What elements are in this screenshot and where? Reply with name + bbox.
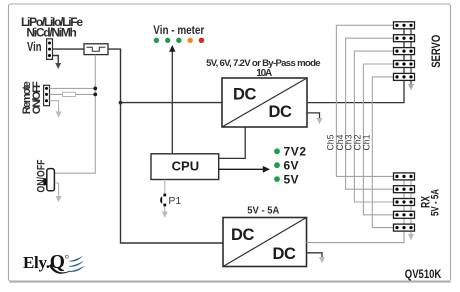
ground remote (gray)	[50, 101, 62, 118]
wire fuse bottom to switch (gray)	[55, 55, 96, 174]
wire U1 output to servo bus	[307, 25, 404, 102]
node remote middle	[93, 93, 97, 97]
wire servo ground bus	[408, 25, 414, 90]
dc-dc converter U1 (top)	[222, 78, 307, 127]
label DC1 mode	[206, 58, 321, 79]
logo Ely.Q	[23, 252, 85, 274]
connector RX CH2	[394, 211, 415, 218]
svg-text:SERVO: SERVO	[431, 35, 443, 68]
connector RX CH1	[394, 224, 415, 231]
svg-text:NiCd/NiMh: NiCd/NiMh	[26, 26, 77, 40]
svg-text:CPU: CPU	[172, 159, 199, 174]
connector servo CH5	[394, 22, 415, 29]
ground U1 output	[307, 113, 323, 124]
connector servo CH3	[394, 48, 415, 55]
wire U3 output to RX bus (gray)	[307, 176, 405, 242]
LED bar Vin meter	[154, 38, 204, 43]
cpu U2	[151, 154, 219, 180]
connector J2 remote	[44, 85, 50, 105]
svg-text:5V - 5A: 5V - 5A	[429, 189, 441, 216]
svg-text:QV510K: QV510K	[405, 267, 442, 281]
dc-dc converter U3 (bottom)	[223, 218, 307, 267]
connector RX CH4	[394, 186, 415, 193]
svg-text:10A: 10A	[256, 68, 272, 79]
connector RX CH3	[394, 199, 415, 206]
svg-text:7V2: 7V2	[284, 145, 307, 159]
ground switch (gray)	[55, 183, 62, 202]
wire Ch5 servo to RX	[336, 25, 396, 176]
wire CPU to Vin-meter (arrow up)	[169, 45, 175, 154]
svg-text:Vin - meter: Vin - meter	[153, 25, 204, 37]
connector RX CH5	[394, 173, 415, 180]
label Remote ON/OFF	[21, 81, 43, 114]
wire rail branch to DC1 input	[121, 102, 223, 104]
svg-text:DC: DC	[269, 103, 293, 121]
svg-text:5V: 5V	[284, 172, 299, 186]
node remote top	[93, 87, 97, 91]
pushbutton P1	[160, 180, 181, 218]
connector J1 Vin	[47, 39, 53, 60]
svg-text:ON/OFF: ON/OFF	[36, 159, 48, 192]
wire Ch3 servo to RX	[354, 51, 396, 202]
switch SW1 ON/OFF	[43, 169, 54, 191]
wire CPU to U1 bottom	[219, 127, 246, 158]
resistor R1 on remote middle pin	[50, 92, 96, 96]
wire main Vin rail (fuse to rail, down, to DC2 input)	[108, 49, 223, 243]
wire Ch4 servo to RX	[346, 38, 397, 189]
wire Vin middle pin to fuse	[53, 48, 85, 50]
status LEDs 7V2/6V/5V	[274, 145, 306, 187]
ground U3 output	[307, 253, 326, 263]
node junction rail/DC1	[119, 101, 123, 105]
svg-text:5V - 5A: 5V - 5A	[247, 205, 279, 217]
svg-text:Ch1: Ch1	[362, 135, 373, 151]
wire remote top pin to rail	[50, 87, 96, 89]
connector servo CH1	[394, 73, 415, 80]
wire Ch2 servo to RX	[363, 64, 396, 215]
wire CPU arrow to status LEDs	[219, 166, 270, 173]
wire RX ground bus	[408, 176, 414, 240]
svg-text:6V: 6V	[284, 158, 299, 172]
fuse F1	[84, 44, 108, 55]
svg-text:Ely.Q: Ely.Q	[23, 252, 65, 273]
label battery types	[21, 15, 83, 40]
svg-text:DC: DC	[231, 226, 255, 244]
svg-text:Vin: Vin	[27, 40, 42, 54]
connector servo CH2	[394, 61, 415, 68]
svg-text:P1: P1	[168, 195, 181, 207]
svg-text:DC: DC	[273, 245, 297, 263]
wire Ch1 servo to RX	[372, 77, 396, 228]
connector servo CH4	[394, 35, 415, 42]
svg-text:DC: DC	[233, 86, 257, 104]
svg-text:ON/OFF: ON/OFF	[31, 81, 43, 114]
ground Vin (dark)	[53, 56, 62, 70]
